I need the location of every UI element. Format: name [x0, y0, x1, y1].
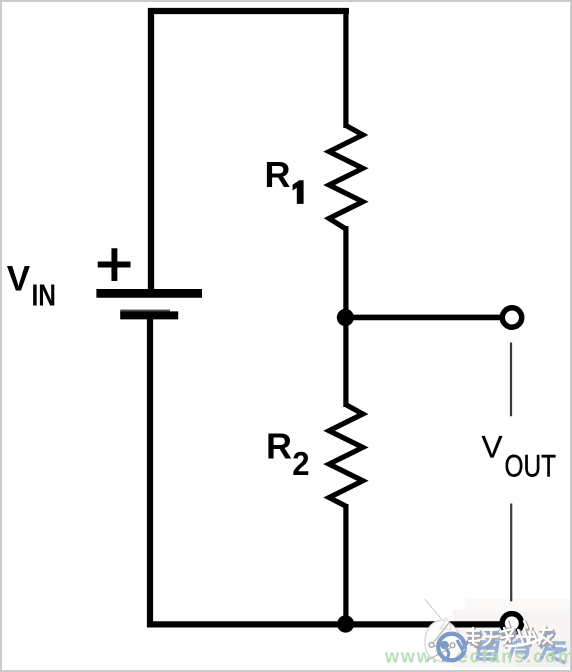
- resistor R1 zigzag: [329, 126, 363, 229]
- resistor R2 zigzag: [329, 405, 363, 507]
- wire: between R1 and node A: [343, 226, 348, 320]
- watermark logo wing cutout: [452, 638, 465, 654]
- svg-text:V: V: [7, 259, 31, 298]
- watermark row1: dian-zi-fa-shao-you gray shadow layer: [468, 622, 553, 646]
- svg-text:R: R: [266, 426, 292, 467]
- watermark row2: large calligraphic chars light blue: [477, 641, 569, 663]
- watermark bubble needle lines: [427, 622, 451, 661]
- terminal: V_OUT +: [502, 308, 521, 327]
- node A junction dot: [337, 309, 354, 326]
- svg-text:2: 2: [292, 445, 309, 482]
- battery V_IN: short negative plate: [120, 310, 170, 313]
- wire: thin output line lower: [510, 504, 512, 602]
- watermark bubble tail crossing wire: [440, 618, 451, 630]
- wire: top rail: [148, 8, 349, 14]
- wire: left rail lower (battery negative lead): [147, 314, 153, 627]
- watermark group (elecfans.com): [384, 599, 572, 667]
- wire: node A to output terminal: [346, 315, 502, 321]
- watermark tint box: [453, 610, 570, 667]
- battery V_IN: plus sign: [98, 248, 131, 281]
- watermark bubble needle dots: [429, 643, 434, 648]
- wire: right branch top (to R1): [343, 8, 348, 128]
- terminal: V_OUT -: [502, 614, 521, 633]
- wire: thin output line upper: [510, 343, 512, 417]
- watermark row1: blue under layer: [470, 631, 555, 649]
- svg-text:IN: IN: [32, 278, 57, 313]
- svg-text:V: V: [482, 429, 503, 465]
- watermark white bubble: [425, 620, 461, 662]
- watermark logo blue ring: [438, 634, 465, 661]
- wire: left rail upper (V_IN positive lead): [148, 8, 154, 293]
- svg-text:OUT: OUT: [505, 447, 557, 483]
- watermark row1: dian-zi-fa-shao-you white top layer: [467, 621, 552, 646]
- svg-text:R: R: [265, 154, 291, 195]
- battery V_IN: long positive plate: [96, 289, 202, 298]
- wire: R2 to bottom rail: [343, 504, 348, 624]
- watermark logo inner mark: [440, 641, 449, 650]
- svg-text:www.elecfans.com: www.elecfans.com: [384, 647, 572, 667]
- wire: between node A and R2: [343, 315, 348, 407]
- node B junction dot (bottom): [337, 615, 354, 632]
- wire: bottom rail: [147, 621, 503, 627]
